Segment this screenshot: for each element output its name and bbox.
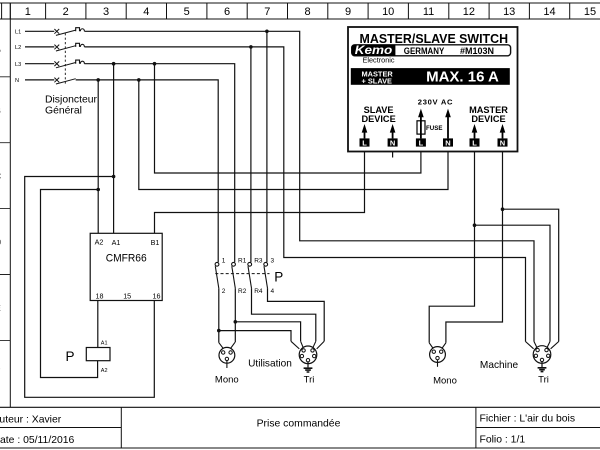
socket tri utilisation: ground stem (307, 362, 309, 367)
wire L3 branch to Kemo fuse L terminal (155, 64, 421, 173)
wire master N branch to tri machine socket (503, 209, 559, 341)
breaker Q1 pole L3: trip bumps (76, 60, 85, 64)
svg-text:12: 12 (463, 6, 475, 18)
svg-text:Mono: Mono (215, 375, 239, 386)
node N to A2 junction (96, 78, 100, 82)
svg-text:Disjoncteur: Disjoncteur (45, 94, 98, 105)
socket tri utilisation: body circle (299, 346, 317, 364)
title block: outer lines (0, 407, 600, 448)
wire N branch to Kemo N terminal (139, 80, 448, 190)
svg-text:DEVICE: DEVICE (471, 114, 505, 124)
svg-text:GERMANY: GERMANY (404, 46, 445, 56)
node L3 to fuse junction (153, 62, 157, 66)
contactor P pole 2 blade (232, 266, 236, 288)
wire pole 2 branch to tri utilisation socket (235, 322, 300, 342)
wire contactor pole 4 output to tri utilisation socket (268, 288, 325, 341)
socket tri machine: ground stem (541, 362, 543, 367)
breaker Q1 pole L3: contact cross (54, 61, 59, 66)
node pole 2 output junction (234, 320, 238, 324)
svg-text:Fichier : L'air du bois: Fichier : L'air du bois (480, 413, 576, 424)
svg-text:1: 1 (222, 258, 226, 265)
wire L2 to contactor pole 3 and tri machine socket (84, 47, 525, 342)
frame: outer top border (0, 2, 600, 4)
U1 terminal L slave (360, 138, 370, 146)
U1 master L arrow (474, 131, 476, 138)
breaker Q1 pole L1: blade (56, 30, 76, 35)
breaker Q1 pole L3: blade (56, 63, 76, 68)
svg-text:P: P (274, 269, 283, 284)
U1 230V N arrow (447, 116, 449, 139)
wire L1 branch to contactor pole 4 (266, 31, 268, 262)
contactor P pole 3 contact circle (248, 262, 252, 266)
svg-text:R2: R2 (238, 288, 247, 295)
svg-text:FUSE: FUSE (426, 125, 443, 132)
svg-text:L: L (419, 138, 424, 147)
breaker Q1 pole L2: blade (56, 46, 76, 51)
svg-text:L: L (362, 138, 367, 147)
wire Kemo master N terminal to mono machine socket (446, 152, 503, 343)
svg-text:2: 2 (222, 288, 226, 295)
wire contactor pole 2 output to mono utilisation socket (234, 288, 236, 342)
svg-text:Prise commandée: Prise commandée (257, 418, 341, 429)
svg-text:9: 9 (345, 6, 351, 18)
svg-text:2: 2 (63, 6, 69, 18)
socket mono machine: body circle (430, 347, 446, 363)
U1 terminal L 230V (416, 138, 426, 146)
U1 slave L arrow (364, 131, 366, 138)
U1 terminal N slave (388, 138, 398, 146)
svg-text:C: C (0, 171, 1, 181)
U1 logo lozenge border (352, 45, 511, 56)
svg-text:Folio : 1/1: Folio : 1/1 (480, 434, 526, 445)
title block: cell dividers (0, 407, 600, 448)
wire L2 lead-in (25, 46, 54, 48)
svg-text:7: 7 (264, 6, 270, 18)
U1 terminal N master (498, 138, 508, 146)
svg-text:Tri: Tri (304, 375, 315, 386)
breaker Q1 pole L1: contact cross (54, 29, 59, 34)
socket tri machine: body circle (533, 346, 551, 364)
wire contactor pole 1 output to mono utilisation socket (218, 288, 220, 342)
frame: cropped row letters (0, 43, 1, 376)
node L3 to A1 junction (112, 62, 116, 66)
svg-text:6: 6 (224, 6, 230, 18)
breaker Q1: linkage dashed line (64, 33, 66, 83)
svg-text:L: L (472, 138, 477, 147)
svg-text:N: N (390, 138, 395, 147)
wire L1 to contactor pole 4 and tri machine socket (84, 31, 534, 341)
svg-text:10: 10 (382, 6, 394, 18)
U1 terminal N 230V (443, 138, 453, 146)
U1 fuse arrow (420, 116, 422, 139)
svg-text:18: 18 (96, 291, 104, 300)
svg-text:DEVICE: DEVICE (361, 114, 395, 124)
ground symbol tri utilisation (304, 368, 313, 372)
svg-text:L2: L2 (15, 45, 21, 51)
relay CMFR66 box (90, 233, 162, 300)
Kemo master/slave switch U1: outer box (348, 27, 518, 152)
svg-text:L1: L1 (15, 30, 21, 36)
wire master L branch to tri machine socket (475, 225, 551, 341)
U1 rating black bar (351, 68, 510, 85)
contactor P pole 4 contact circle (264, 262, 268, 266)
wire L3 loop to CMFR66 pin 16 (25, 177, 155, 398)
breaker Q1 pole N: contact cross (54, 78, 59, 83)
socket mono utilisation: body circle (219, 347, 235, 363)
breaker Q1 pole N: blade (56, 79, 76, 84)
node L2 branch junction (249, 45, 253, 49)
node master N junction (501, 207, 505, 211)
U1 terminal L master (470, 138, 480, 146)
frame: left border (9, 3, 11, 407)
svg-text:N: N (500, 138, 505, 147)
svg-text:N: N (445, 138, 450, 147)
svg-text:B1: B1 (151, 238, 160, 247)
socket mono machine: earth pin stem (437, 360, 439, 367)
svg-text:CMFR66: CMFR66 (106, 252, 147, 264)
svg-text:Tri: Tri (538, 374, 549, 385)
svg-text:16: 16 (153, 291, 161, 300)
svg-text:Auteur : Xavier: Auteur : Xavier (0, 415, 62, 426)
svg-text:15: 15 (584, 6, 596, 18)
wire N loop to coil P pin A2 (41, 190, 99, 378)
svg-text:N: N (15, 78, 19, 84)
svg-text:Date : 05/11/2016: Date : 05/11/2016 (0, 435, 75, 446)
svg-text:Mono: Mono (433, 375, 457, 386)
svg-text:3: 3 (271, 258, 275, 265)
wire pole 1 branch to tri utilisation socket (219, 331, 291, 342)
svg-text:R1: R1 (238, 258, 247, 265)
frame: header band bottom line (0, 18, 600, 20)
contactor P pole 1 blade (215, 266, 219, 288)
wire CMFR66 pin 18 to coil P pin A1 (97, 301, 99, 348)
node master L junction (473, 223, 477, 227)
U1 slave N arrow (392, 131, 394, 138)
svg-text:1: 1 (25, 6, 31, 18)
svg-text:4: 4 (143, 6, 149, 18)
wire N to contactor pole 1 (76, 80, 219, 262)
frame: left row divider ticks (0, 77, 10, 341)
wire L3 lead-in (25, 63, 54, 65)
wire Kemo slave L terminal to CMFR66 pin B1 (155, 152, 365, 234)
wire Kemo slave N terminal stub (392, 152, 394, 158)
contactor P pole 2 contact circle (232, 262, 236, 266)
svg-text:Machine: Machine (480, 360, 519, 371)
socket mono utilisation: earth pin stem (226, 361, 228, 368)
node N loop junction (96, 188, 100, 192)
node L3 loop junction (112, 175, 116, 179)
svg-text:11: 11 (423, 6, 434, 18)
svg-text:3: 3 (103, 6, 109, 18)
socket tri utilisation: entry diagonals (291, 341, 324, 349)
node N to Kemo junction (137, 78, 141, 82)
svg-text:MAX. 16 A: MAX. 16 A (426, 68, 499, 85)
svg-text:P: P (66, 349, 75, 364)
ground symbol tri machine (538, 368, 547, 372)
contactor P pole 4 blade (264, 266, 268, 288)
svg-text:R4: R4 (254, 288, 263, 295)
socket mono utilisation: entry diagonals (219, 342, 235, 350)
wire N lead-in (25, 79, 54, 81)
wire L3 branch to CMFR66 pin A1 (113, 64, 115, 234)
coil P box (86, 348, 110, 361)
socket tri utilisation: pins (302, 349, 305, 352)
contactor P terminal labels top (222, 258, 275, 265)
contactor P pole 3 blade (248, 266, 252, 288)
svg-text:+ SLAVE: + SLAVE (362, 77, 393, 86)
wire L2 branch to contactor pole 3 (250, 47, 252, 262)
svg-text:Général: Général (45, 105, 82, 116)
svg-text:13: 13 (503, 6, 515, 18)
svg-text:R3: R3 (254, 258, 263, 265)
contactor P linkage dashed line (215, 273, 269, 275)
wire L1 lead-in (25, 30, 54, 32)
socket mono machine: entry diagonals (429, 343, 446, 350)
svg-text:15: 15 (123, 291, 131, 300)
breaker Q1 pole L2: trip bumps (76, 43, 85, 47)
contactor P pole 1 contact circle (215, 262, 219, 266)
svg-text:4: 4 (271, 288, 275, 295)
breaker Q1 pole L1: thermal and magnetic trip bumps (76, 28, 85, 32)
svg-text:#M103N: #M103N (460, 46, 494, 56)
wire N branch to CMFR66 pin A2 (97, 80, 99, 233)
svg-text:Utilisation: Utilisation (248, 358, 292, 369)
node L1 branch junction (265, 30, 269, 34)
svg-text:D: D (0, 237, 1, 247)
svg-text:L3: L3 (15, 62, 21, 68)
node pole 1 output junction (217, 329, 221, 333)
svg-text:A2: A2 (101, 368, 108, 374)
svg-text:A1: A1 (101, 341, 108, 347)
svg-text:14: 14 (543, 6, 555, 18)
contactor P terminal labels bottom (222, 288, 275, 295)
wire L3 to contactor pole 2 (84, 64, 234, 263)
wire contactor pole 3 output to tri utilisation socket (252, 288, 316, 341)
breaker Q1 pole L2: contact cross (54, 45, 59, 50)
socket mono machine: pins (432, 350, 435, 353)
socket tri machine: entry diagonals (526, 342, 559, 350)
svg-text:5: 5 (184, 6, 190, 18)
socket mono utilisation: pins (222, 351, 225, 354)
svg-text:A2: A2 (95, 238, 104, 247)
U1 master N arrow (502, 131, 504, 138)
U1 fuse symbol (417, 121, 425, 134)
frame: column numbers (25, 6, 596, 18)
svg-text:230V AC: 230V AC (418, 97, 453, 106)
svg-text:Electronic: Electronic (363, 55, 395, 64)
frame: header cell dividers (2, 3, 570, 19)
socket tri machine: pins (536, 348, 539, 351)
svg-text:8: 8 (305, 6, 311, 18)
wire Kemo master L terminal to mono machine socket (429, 152, 474, 343)
U1 Kemo logo black field (352, 45, 396, 56)
svg-text:A1: A1 (112, 238, 121, 247)
